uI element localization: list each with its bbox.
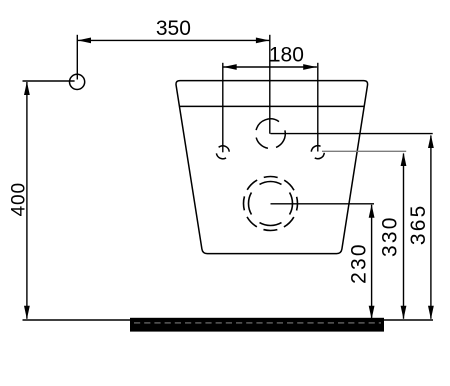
extension line horizontal 400 — [23, 80, 75, 82]
dimension 350 line — [77, 38, 269, 44]
svg-text:330: 330 — [378, 215, 401, 257]
reference point circle — [70, 74, 85, 89]
svg-text:180: 180 — [269, 44, 304, 67]
svg-text:365: 365 — [407, 203, 430, 245]
extension line right hole — [317, 63, 319, 152]
left hole circle — [216, 146, 229, 159]
leader line 365 — [271, 133, 433, 135]
drain inner circle (dashed) — [249, 182, 293, 226]
right hole circle — [311, 146, 324, 159]
body outline — [176, 81, 368, 254]
extension line left hole — [222, 63, 224, 153]
body shoulder line — [179, 105, 364, 107]
leader line 330 (gray) — [322, 150, 406, 152]
extension line left reference — [76, 35, 78, 80]
ground line — [23, 319, 434, 321]
dimension 230 line — [369, 204, 375, 319]
svg-text:400: 400 — [9, 182, 30, 216]
extension line center — [269, 35, 271, 134]
top center hole circle — [256, 119, 285, 148]
dimension 400 line — [24, 82, 30, 320]
mounting rail bar — [130, 318, 384, 332]
drain outer circle (dashed) — [244, 177, 298, 231]
leader line 230 — [271, 203, 375, 205]
svg-text:230: 230 — [348, 242, 371, 284]
dimension 180 line — [223, 64, 317, 70]
svg-text:350: 350 — [156, 17, 191, 40]
mounting rail centerline (dashed) — [134, 322, 381, 324]
dimension 330 line — [401, 153, 407, 320]
dimension 365 line — [428, 135, 434, 320]
